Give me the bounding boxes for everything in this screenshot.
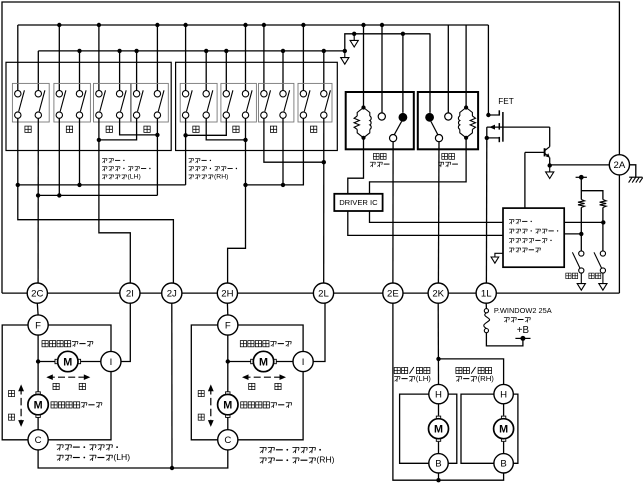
svg-text:F: F	[35, 320, 41, 331]
wire RH down2 drop to segC and 2H	[228, 118, 248, 283]
switch sub-box 右 LH	[131, 83, 168, 122]
switch fukki manual	[594, 251, 607, 290]
svg-text:H: H	[435, 390, 442, 401]
chassis ground symbol	[629, 177, 643, 182]
switch RH 下 contact 1	[223, 90, 233, 118]
motor M up-down LH	[28, 392, 48, 418]
label power outer mirror motor LH	[57, 445, 131, 462]
wire LH down2 drop to lineA	[77, 118, 81, 187]
connector 1L	[476, 283, 496, 303]
connector I RH	[293, 351, 313, 371]
svg-text:(LH): (LH)	[128, 174, 141, 181]
wire base to module top	[524, 152, 526, 208]
svg-text:2H: 2H	[221, 289, 233, 300]
switch RH 上 contact 1	[182, 90, 192, 118]
wire I LH to 2I	[121, 303, 130, 361]
power outer mirror control module U2	[503, 208, 564, 267]
connector C LH	[28, 430, 48, 450]
wire relay risers from bus1/line2	[361, 23, 488, 115]
relay fukki fixed contact	[445, 113, 452, 120]
wire M to B RH	[503, 442, 505, 454]
relay fukki box	[418, 92, 478, 149]
wire frame loop top/left	[2, 2, 619, 293]
svg-text:(RH): (RH)	[214, 174, 228, 181]
wire F column RH	[226, 335, 230, 429]
label kakunou relay	[370, 154, 390, 168]
label power outer mirror switch RH	[189, 159, 237, 181]
connector H RH	[494, 384, 513, 403]
wire RH up1-down1 link	[183, 118, 226, 137]
wire RH up2-down2 link	[206, 118, 248, 142]
+B terminal	[486, 325, 530, 346]
wire 2A down to connector row	[618, 175, 620, 293]
label 上 RH	[193, 126, 199, 132]
wire LH drop left1 to 2I jog	[99, 140, 130, 283]
connector 2I	[120, 283, 140, 303]
svg-text:C: C	[224, 435, 231, 446]
motor M left-right RH	[228, 351, 293, 371]
svg-text:2J: 2J	[167, 289, 177, 300]
wire LH down1 drop to lineB	[57, 118, 61, 197]
switch assembly box LH	[6, 62, 171, 150]
mirror motor box LH	[2, 325, 111, 440]
label up-down arrow RH	[198, 384, 214, 427]
svg-text:+B: +B	[517, 325, 530, 336]
wire connector row bus	[2, 292, 619, 294]
switch LH 上 contact 1	[15, 90, 25, 118]
switch sub-box 左 LH	[94, 83, 131, 122]
connector B LH	[429, 454, 448, 473]
switch sub-box 下 RH	[221, 83, 257, 122]
svg-text:2K: 2K	[432, 289, 444, 300]
relay kakunou box	[346, 92, 414, 149]
motor M retract RH	[494, 416, 514, 441]
svg-text:M: M	[34, 400, 43, 412]
wire M to B LH	[438, 442, 440, 454]
wire RH left1-right2 link	[264, 118, 326, 164]
switch LH 左 contact 1	[96, 90, 106, 118]
connector 2A	[609, 155, 629, 175]
wire lineA	[16, 183, 186, 187]
wire kakunou coil to driver ic	[348, 138, 364, 194]
fuse P.WINDOW2 25A	[484, 303, 490, 333]
wire H to M LH	[438, 404, 440, 416]
connector I LH	[101, 351, 121, 371]
relay fukki coil	[458, 105, 475, 139]
wire kakunou blade to 2E	[392, 142, 394, 283]
svg-text:M: M	[434, 424, 443, 436]
wire lineA drop to 2J	[18, 185, 174, 283]
switch sub-box 右 RH	[298, 83, 332, 122]
wire 2K to H motors	[436, 303, 503, 384]
svg-text:(LH): (LH)	[113, 452, 130, 462]
wire fukki coil to driver ic	[370, 138, 467, 194]
switch assembly box RH	[176, 62, 338, 150]
wire F column LH	[36, 335, 40, 429]
connector 2H	[217, 283, 237, 303]
relay fukki moving contact and blade	[425, 113, 442, 142]
switch RH 右 contact 2	[321, 90, 331, 118]
svg-text:C: C	[35, 435, 42, 446]
connector F LH	[28, 315, 48, 335]
svg-text:P.WINDOW2 25A: P.WINDOW2 25A	[494, 306, 552, 315]
wire RH up1 drop to lineA end	[185, 135, 187, 185]
label 左 LH	[106, 126, 112, 132]
wire bus2 horizontal	[38, 50, 345, 52]
label up-down adjust motor RH	[241, 402, 292, 408]
wire fukki blade to 2K	[437, 142, 440, 283]
retract motor box LH	[400, 394, 457, 463]
wire LH right2 drop to lineB	[156, 118, 158, 195]
switch LH 右 contact 2	[154, 90, 164, 118]
retract motor box RH	[461, 394, 518, 463]
wire RH right2 drop to 2L	[323, 118, 325, 283]
switch sub-box 下 LH	[54, 83, 91, 122]
label 下 RH	[233, 126, 239, 132]
switch RH 下 contact 2	[242, 90, 252, 118]
svg-text:M: M	[259, 356, 268, 368]
relay kakunou fixed contact	[378, 113, 385, 120]
svg-text:M: M	[63, 356, 72, 368]
switch kakunou manual	[572, 251, 585, 290]
switch LH 下 contact 2	[76, 90, 86, 118]
ground arrow on line2	[350, 32, 358, 47]
wire lineB	[38, 194, 157, 196]
wire 2C to F LH	[36, 303, 39, 315]
ground arrow at bus2 end	[341, 49, 349, 64]
switch sub-box 上 RH	[180, 83, 217, 122]
resistor R2 (fukki pull)	[581, 191, 606, 251]
connector H LH	[429, 384, 448, 403]
mirror motor box RH	[191, 325, 303, 440]
wire RH segC	[246, 118, 304, 185]
label power outer mirror switch LH	[102, 159, 150, 181]
connector 2E	[383, 283, 403, 303]
switch RH 上 contact 2	[203, 90, 213, 118]
wire LH up1 drop to lineA	[17, 118, 19, 185]
connector B RH	[494, 454, 513, 473]
svg-text:H: H	[500, 390, 507, 401]
transistor Q2	[525, 127, 550, 158]
wire module right to kakunou switch	[564, 232, 583, 236]
svg-text:2L: 2L	[318, 289, 329, 300]
wire 2J to bottom bus	[171, 303, 173, 468]
svg-text:M: M	[223, 400, 232, 412]
svg-text:M: M	[499, 424, 508, 436]
switch LH 下 contact 1	[56, 90, 66, 118]
driver IC U1	[334, 194, 382, 211]
wire driver ic out1 to module	[348, 211, 503, 235]
wire LH left2-right2 link	[120, 118, 160, 137]
svg-text:F: F	[225, 320, 231, 331]
wire bus1 horizontal	[18, 24, 489, 26]
label kakunou switch	[566, 273, 578, 279]
switch sub-box 上 LH	[12, 83, 49, 122]
connector 2K	[428, 283, 448, 303]
switch sub-box 左 RH	[259, 83, 294, 122]
svg-text:2A: 2A	[614, 160, 626, 171]
wire 2E to B motors bus	[393, 303, 504, 482]
motor M up-down RH	[218, 392, 238, 418]
ground arrow below emitter	[546, 166, 554, 179]
motor M left-right LH	[38, 351, 101, 371]
wire I RH to 2L	[313, 303, 325, 361]
label up-down arrow LH	[9, 384, 25, 427]
relay kakunou moving contact and blade	[390, 113, 408, 142]
switch LH 右 contact 1	[133, 90, 143, 118]
connector 2C	[27, 283, 47, 303]
svg-text:(LH): (LH)	[416, 374, 432, 383]
svg-text:(RH): (RH)	[478, 374, 495, 383]
svg-text:B: B	[500, 459, 506, 470]
label 下 LH	[66, 126, 72, 132]
svg-text:I: I	[110, 357, 113, 368]
switch RH 左 contact 2	[280, 90, 290, 118]
power feed terminal node	[576, 175, 587, 180]
wire 2A to chassis ground	[630, 165, 636, 177]
connector F RH	[218, 315, 238, 335]
label left right arrow LH	[46, 374, 90, 389]
wire line2 horizontal	[345, 34, 431, 51]
connector 2L	[313, 283, 333, 303]
svg-text:(RH): (RH)	[316, 455, 334, 465]
label 上 LH	[25, 126, 31, 132]
svg-text:2C: 2C	[31, 289, 43, 300]
label retract motor RH	[456, 367, 494, 383]
wire driver ic out2 to module	[370, 211, 504, 222]
svg-text:2I: 2I	[126, 289, 134, 300]
svg-text:1L: 1L	[481, 289, 492, 300]
wire 2H to F RH	[226, 303, 228, 315]
label power outer mirror motor RH	[260, 448, 335, 465]
label fuse	[494, 306, 552, 323]
label 右 LH	[144, 126, 150, 132]
svg-text:2E: 2E	[387, 289, 399, 300]
switch RH 左 contact 1	[261, 90, 271, 118]
ground arrow module left	[491, 253, 503, 263]
wire module right to fukki switch	[564, 220, 605, 224]
label 右 RH	[311, 126, 317, 132]
wire switch risers to buses	[18, 23, 326, 91]
label up-down adjust motor LH	[51, 402, 102, 408]
label left-right adjust motor LH	[42, 341, 93, 347]
wire FET source to 1L	[485, 138, 487, 283]
switch LH 左 contact 2	[116, 90, 126, 118]
svg-text:B: B	[435, 459, 441, 470]
connector 2J	[162, 283, 182, 303]
switch RH 右 contact 1	[300, 90, 310, 118]
FET Q1	[485, 97, 550, 142]
label fukki switch	[589, 273, 601, 279]
label fukki relay	[438, 154, 458, 168]
label retract motor LH	[394, 367, 431, 383]
label left-right adjust motor RH	[240, 341, 291, 347]
label left right arrow RH	[242, 374, 286, 389]
wire LH left1-right1 link	[97, 118, 137, 142]
wire bottom bus C-LH to C-RH	[38, 450, 228, 470]
wire emitter node	[548, 158, 610, 168]
switch LH 上 contact 2	[35, 90, 45, 118]
relay kakunou coil	[354, 105, 371, 139]
label 左 RH	[270, 126, 276, 132]
wire H to M RH	[503, 404, 505, 416]
svg-text:I: I	[302, 357, 305, 368]
svg-text:DRIVER IC: DRIVER IC	[339, 198, 378, 207]
wire RH left2 drop	[281, 118, 285, 187]
resistor R1 (kakunou pull)	[578, 177, 585, 251]
wire LH up2 drop to lineB and 2C	[36, 118, 40, 283]
motor M retract LH	[429, 416, 449, 441]
svg-text:FET: FET	[498, 97, 513, 106]
connector C RH	[218, 430, 238, 450]
